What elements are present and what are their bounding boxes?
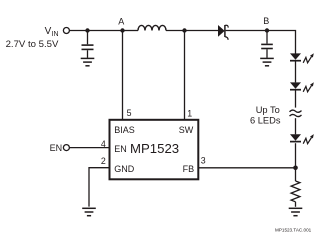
LED D3 <box>290 82 301 89</box>
wire: feedback node to resistor <box>295 168 297 181</box>
LED D3 emission arrows <box>303 82 314 92</box>
wire: node B to LED string (corner) <box>267 31 296 54</box>
node B <box>265 28 269 32</box>
svg-text:2.7V to 5.5V: 2.7V to 5.5V <box>6 39 59 50</box>
wire: output capacitor to ground <box>266 49 268 58</box>
wire: SW junction down to pin 1 <box>184 31 186 120</box>
wire: inductor to SW junction <box>166 30 185 32</box>
inductor L1 <box>138 25 166 30</box>
wire: EN terminal to pin 4 <box>70 147 109 149</box>
wire: pin 3 FB to feedback node <box>199 167 296 169</box>
wire: node A down to pin 5 <box>122 31 124 120</box>
wire: LED D3 to break symbol <box>295 91 297 108</box>
svg-text:6 LEDs: 6 LEDs <box>250 115 281 125</box>
wire: VIN terminal to node A (top rail) <box>70 30 123 32</box>
svg-text:V: V <box>45 26 52 37</box>
svg-text:MP1523.TAC.001: MP1523.TAC.001 <box>275 228 312 233</box>
svg-text:MP1523: MP1523 <box>130 141 179 156</box>
wire: node B down to output capacitor <box>266 31 268 44</box>
wire: SW junction to diode anode <box>185 30 219 32</box>
ground: feedback resistor <box>289 208 303 215</box>
svg-text:FB: FB <box>183 164 195 174</box>
diode D1 (Schottky) <box>218 25 228 40</box>
wire: input capacitor to ground <box>87 50 89 58</box>
LED D4 emission arrows <box>303 134 314 144</box>
junction: feedback node <box>293 166 298 171</box>
wire: tap down to input capacitor <box>87 31 89 45</box>
LED D2 <box>290 53 301 60</box>
wire: resistor to ground <box>295 202 297 207</box>
junction: SW node <box>182 28 186 32</box>
svg-text:SW: SW <box>179 125 194 135</box>
svg-text:4: 4 <box>101 139 106 149</box>
svg-text:A: A <box>118 16 124 26</box>
capacitor C-out <box>261 44 273 48</box>
svg-text:Up To: Up To <box>256 105 280 115</box>
capacitor C-in <box>82 45 94 49</box>
wire: node A to inductor <box>123 30 139 32</box>
wire: pin 2 GND to ground <box>89 168 109 207</box>
LED D4 <box>290 134 301 141</box>
svg-text:EN: EN <box>114 144 127 154</box>
svg-text:2: 2 <box>101 156 106 166</box>
wire: LED D4 to feedback node <box>295 143 297 168</box>
svg-text:3: 3 <box>201 156 206 166</box>
ground: output capacitor <box>260 58 274 65</box>
svg-text:5: 5 <box>127 108 132 118</box>
wire: diode cathode to node B <box>226 30 267 32</box>
svg-text:IN: IN <box>52 31 59 38</box>
op-amp U1 MP1523 box <box>110 120 199 180</box>
node A <box>120 28 124 32</box>
svg-text:GND: GND <box>114 164 135 174</box>
svg-text:EN: EN <box>50 143 63 153</box>
junction: input capacitor tap <box>85 28 89 32</box>
terminal VIN <box>63 28 69 34</box>
svg-text:B: B <box>263 16 269 26</box>
svg-text:BIAS: BIAS <box>114 125 135 135</box>
wire: break symbol to LED D4 <box>295 118 297 134</box>
terminal EN <box>63 145 69 151</box>
LED D2 emission arrows <box>303 53 314 63</box>
svg-text:1: 1 <box>187 108 192 118</box>
break symbol (string continuation) <box>290 110 302 117</box>
ground: GND pin <box>82 208 96 215</box>
resistor R1 <box>291 181 300 202</box>
wire: LED D2 to LED D3 <box>295 62 297 83</box>
ground: input capacitor <box>81 58 95 65</box>
